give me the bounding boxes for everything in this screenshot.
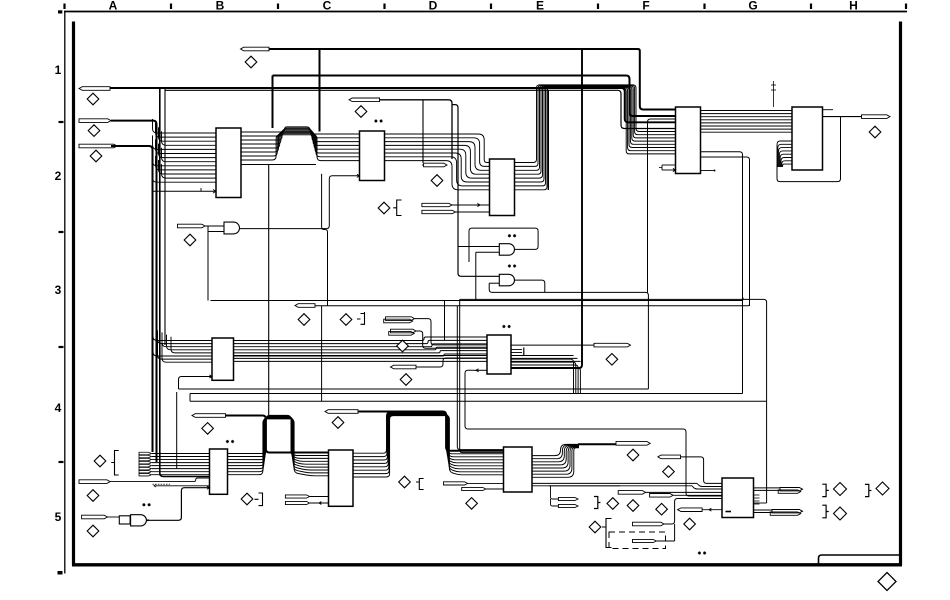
- sheet border bottom thick: [72, 563, 902, 566]
- diamond label net6: [431, 175, 443, 187]
- rail y299 to G areas: [460, 299, 767, 503]
- rail y393: [190, 393, 743, 395]
- flag net29: [462, 487, 486, 490]
- wire net29: [486, 488, 504, 490]
- sheet frame left thin line: [64, 12, 66, 574]
- wire net1 top flag: [241, 47, 270, 51]
- flag net18: [594, 343, 631, 347]
- ic U8: [210, 449, 228, 494]
- flag net14: [384, 317, 415, 323]
- wire U6 long pin b: [234, 357, 578, 359]
- wire vertical x176 lower: [176, 392, 178, 469]
- wire U5 top stub: [823, 109, 834, 111]
- wire G1 in1: [458, 246, 499, 248]
- diamond label net29: [466, 498, 478, 510]
- bus U4 to U5: [701, 111, 793, 133]
- bus U3 right to riser: [515, 85, 676, 190]
- wire net37: [646, 491, 722, 493]
- wire G1 in2 riser: [475, 252, 477, 300]
- wire net28: [468, 482, 504, 484]
- clock pin wire U6: [179, 375, 213, 389]
- svg-text:2: 2: [55, 169, 62, 183]
- svg-text:A: A: [109, 0, 118, 13]
- wire net5 riser x458: [452, 105, 499, 277]
- wire flag net6 stub: [422, 164, 424, 166]
- wire U1 pin to U2 pin: [241, 164, 316, 166]
- flag net28: [444, 482, 468, 485]
- flag net39: [633, 522, 665, 526]
- flag net36: [658, 455, 681, 459]
- wire net21 arrow line: [154, 485, 210, 487]
- flag net13: [295, 304, 315, 308]
- bus hump U8 to U9: [228, 415, 329, 475]
- flag net6 left of U3: [424, 163, 447, 167]
- wire net1 branch vertical x582: [581, 49, 583, 364]
- bus U7 lower right drops: [511, 359, 580, 393]
- wire net3 horizontal y88 from PI1: [110, 88, 676, 122]
- diamond label net15: [340, 314, 352, 326]
- wire net1 horizontal y49: [269, 48, 636, 50]
- diamond label net30: [399, 476, 411, 488]
- wire net32 branch: [549, 486, 620, 506]
- wire net9 to U3: [456, 211, 490, 213]
- flag net40 arrow: [678, 508, 702, 512]
- and gate G4 input box: [119, 516, 130, 524]
- wire net36: [681, 457, 723, 484]
- diamond label PI3: [90, 150, 102, 162]
- net name text B5: [153, 483, 171, 485]
- bus hump U1 to U2: [241, 127, 360, 161]
- flag net16: [389, 329, 416, 335]
- ic U1: [216, 128, 241, 198]
- ic U7: [487, 335, 511, 374]
- wire PI1 branch riser x159.8: [160, 88, 210, 477]
- bus fan into G5: [692, 483, 722, 489]
- diamond label net16: [397, 340, 409, 352]
- bus fan U5 lower left: [777, 141, 792, 167]
- logo mark U11: [726, 511, 732, 513]
- wire net5 riser x423: [422, 100, 424, 163]
- wire net5 horizontal: [380, 100, 453, 159]
- diamond label net18: [606, 354, 618, 366]
- diamond label net7: [378, 202, 390, 214]
- wire U7 arrow out left: [473, 369, 487, 372]
- bracket net30: [416, 479, 424, 490]
- flag net8: [422, 203, 452, 206]
- wire net31 thick bus: [578, 443, 616, 445]
- and gate G1: [499, 244, 514, 256]
- rail y300 long: [211, 298, 744, 301]
- diamond label net43: [589, 521, 601, 533]
- bracket bus1: [111, 451, 119, 476]
- diamond label PI2: [88, 125, 100, 137]
- bus into B5 left: [152, 454, 210, 475]
- input flag PI2: [79, 119, 111, 123]
- and gate G4: [131, 515, 147, 526]
- flag net17: [391, 365, 417, 369]
- wire U10 long pin a: [532, 482, 697, 484]
- pin stub U4 right: [701, 170, 716, 172]
- label ** U7: [502, 325, 510, 328]
- flag net9: [422, 210, 456, 213]
- ruler column letters A-H: [109, 0, 858, 13]
- svg-text:B: B: [216, 0, 225, 13]
- flag net32a: [558, 497, 578, 500]
- diamond label net11: [184, 234, 196, 246]
- rail jog y389-401: [189, 394, 191, 402]
- bus U11 right out b: [754, 510, 773, 513]
- diamond label net17: [400, 374, 412, 386]
- wire F2 pin down x647: [648, 119, 676, 292]
- svg-text:C: C: [323, 0, 332, 13]
- wire net22 stub: [107, 516, 119, 518]
- svg-text:E: E: [536, 0, 544, 13]
- wire net38: [673, 494, 722, 496]
- double flag net41: [778, 488, 802, 494]
- wire U6 long pin c: [234, 360, 581, 362]
- diamond label net42a: [834, 507, 847, 520]
- rail y389: [179, 388, 649, 390]
- label ** G2g: [508, 264, 516, 267]
- diamond label net41b: [876, 482, 889, 495]
- diamond label net35: [656, 503, 668, 515]
- output flag net10: [862, 115, 891, 119]
- wire x766 to U11: [754, 502, 767, 504]
- flag net31: [616, 442, 650, 446]
- ic U9: [329, 450, 354, 506]
- bus U2 to U3: [385, 134, 490, 190]
- diamond label net5: [355, 106, 367, 118]
- diamond label net36: [663, 466, 675, 478]
- wire G1 out loop: [469, 228, 538, 262]
- flag net27: [325, 410, 358, 414]
- title block notch: [819, 555, 901, 564]
- wire thick x582 into U7: [511, 360, 582, 368]
- wire riser x165 to B3 bus: [164, 88, 166, 345]
- diamond label PI1: [87, 93, 99, 105]
- diamond label net24: [241, 493, 253, 505]
- wire PI2 to left bus riser: [111, 121, 157, 462]
- sheet ruler top line: [64, 11, 907, 13]
- bus hump U9 to U10: [353, 412, 504, 477]
- bus U11 right out a: [754, 488, 781, 491]
- wire net17: [416, 358, 487, 367]
- diamond label net39: [684, 518, 696, 530]
- wire PI3 to left bus riser: [111, 146, 153, 452]
- wire net5 flag y99: [349, 98, 380, 102]
- ic U11: [722, 478, 754, 518]
- wire net1 corner to F bus: [636, 49, 676, 110]
- wire jog net12: [322, 174, 328, 306]
- diamond label net20: [87, 490, 99, 502]
- wire net19 riser x465: [465, 370, 722, 496]
- flag net20: [79, 480, 110, 484]
- and gate G2g: [499, 274, 514, 286]
- diamond label bus1: [94, 455, 106, 467]
- wire G2g box: [489, 283, 648, 389]
- wire riser x268 long: [268, 165, 270, 416]
- wire net23 thick: [226, 416, 329, 453]
- bracket net43: [602, 519, 612, 548]
- and gate G3: [224, 222, 240, 234]
- label ** U8: [226, 440, 234, 443]
- label ** U2: [374, 119, 382, 122]
- pin tick U7: [523, 348, 525, 357]
- diamond label net10: [869, 126, 881, 138]
- bus fan into U1 left: [153, 119, 217, 182]
- double flag net42: [770, 510, 802, 516]
- svg-text:D: D: [429, 0, 438, 13]
- flag net26: [285, 501, 309, 504]
- bracket net15: [357, 312, 365, 324]
- ruler row tick marks: [58, 10, 64, 574]
- bus U10 right riser: [532, 444, 579, 477]
- power stub above U5: [771, 81, 776, 107]
- diamond label net1: [245, 56, 257, 68]
- wire net14: [415, 319, 488, 345]
- wire G3 in1: [205, 225, 224, 227]
- diamond label net31: [627, 449, 639, 461]
- wire U5 output: [823, 116, 862, 118]
- wire x548 riser: [547, 90, 549, 190]
- wire net2 vertical x272: [272, 76, 274, 129]
- svg-text:5: 5: [55, 510, 62, 524]
- label ** bottom: [698, 551, 706, 554]
- ruler column tick marks: [65, 4, 907, 10]
- svg-text:1: 1: [55, 63, 62, 77]
- ic U3: [490, 159, 515, 216]
- bus fan into B3: [153, 328, 212, 362]
- wire U4 pin y157 to mid riser: [701, 157, 750, 306]
- ic U10: [504, 447, 533, 492]
- rail y401 box top: [190, 400, 767, 402]
- diamond label net14: [298, 314, 310, 326]
- flag net23: [192, 414, 226, 418]
- wire net12 lower drop: [321, 306, 323, 401]
- svg-text:4: 4: [55, 401, 62, 415]
- wire net27 thick: [358, 412, 504, 451]
- diamond label net27: [332, 417, 344, 429]
- label ** G1: [508, 234, 516, 237]
- flag net38 on wire: [650, 494, 674, 498]
- wire G3 in2: [208, 226, 224, 232]
- pin stub U7 a: [511, 349, 522, 351]
- wire net4 horizontal y90: [165, 90, 676, 128]
- flag net11 gateB: [178, 224, 206, 228]
- wire G1 in2: [476, 251, 500, 253]
- svg-text:G: G: [748, 0, 757, 13]
- wire G2g in2: [489, 282, 499, 284]
- wire G3 out: [240, 174, 360, 228]
- wire net39 up: [664, 499, 722, 525]
- ic U2: [360, 131, 385, 181]
- ruler row numbers 1-5: [55, 63, 62, 524]
- flag net22: [82, 515, 108, 519]
- wire U5 feedback loop: [777, 117, 841, 182]
- riser x457 to E5: [457, 306, 503, 450]
- flag net37 on wire: [618, 491, 645, 495]
- flag net44 in dashed box: [633, 539, 657, 542]
- wire U6 long pin a: [234, 355, 574, 357]
- wire G3 in2 drop: [207, 232, 209, 301]
- wire net44: [656, 524, 674, 541]
- wire net25: [310, 496, 329, 498]
- svg-text:F: F: [642, 0, 649, 13]
- svg-text:3: 3: [55, 283, 62, 297]
- flag net25: [285, 495, 309, 498]
- bracket net7: [393, 200, 401, 216]
- bracket net42a: [822, 505, 828, 518]
- svg-text:H: H: [849, 0, 858, 13]
- sheet border right thick: [899, 22, 902, 566]
- input flag PI1: [79, 87, 110, 91]
- ic U5: [792, 107, 823, 170]
- wire net2 horizontal y75: [273, 76, 676, 117]
- bus label flags B5: [139, 452, 152, 476]
- input flag PI3: [79, 144, 117, 148]
- wire G4 out: [146, 486, 209, 521]
- flag net32b: [558, 504, 578, 507]
- diamond label net33: [607, 498, 619, 510]
- ic U6: [212, 338, 234, 380]
- diamond label net41a: [834, 483, 847, 496]
- riser x459 to E5 pin2: [460, 299, 504, 452]
- bracket net41a: [822, 484, 828, 496]
- wire net20 to U8: [110, 478, 209, 482]
- wire net40: [702, 508, 722, 511]
- pin stub U7 b: [511, 352, 522, 354]
- sheet border left thick: [72, 22, 75, 566]
- bracket net41b: [865, 484, 871, 496]
- bracket net33: [594, 497, 600, 509]
- label ** G4: [142, 503, 150, 506]
- rail y306: [315, 303, 750, 306]
- wire net1 branch vertical x319: [319, 49, 321, 132]
- revision diamond bottom right: [878, 573, 896, 591]
- pin stubs U4 lower: [659, 165, 676, 172]
- diamond label net34: [627, 500, 639, 512]
- wire U7 out flag line: [511, 344, 594, 346]
- riser x444 into E3: [444, 301, 446, 341]
- diamond label net22: [87, 525, 99, 537]
- dashed selection box: [609, 532, 666, 549]
- pin stubs U11 right: [754, 495, 760, 504]
- ic U4: [676, 107, 701, 174]
- wire net8 to U3: [452, 203, 490, 206]
- bracket net24: [255, 493, 263, 506]
- clock pin wire U1: [153, 188, 217, 193]
- wire net26: [310, 502, 329, 505]
- diamond label net23: [202, 423, 214, 435]
- wire G2g out: [515, 280, 545, 292]
- wire net16: [416, 331, 487, 348]
- wire U4 pin y151 to mid riser: [701, 152, 743, 394]
- wire U10 long pin b: [532, 485, 692, 487]
- bus U6 right to E3: [234, 337, 488, 356]
